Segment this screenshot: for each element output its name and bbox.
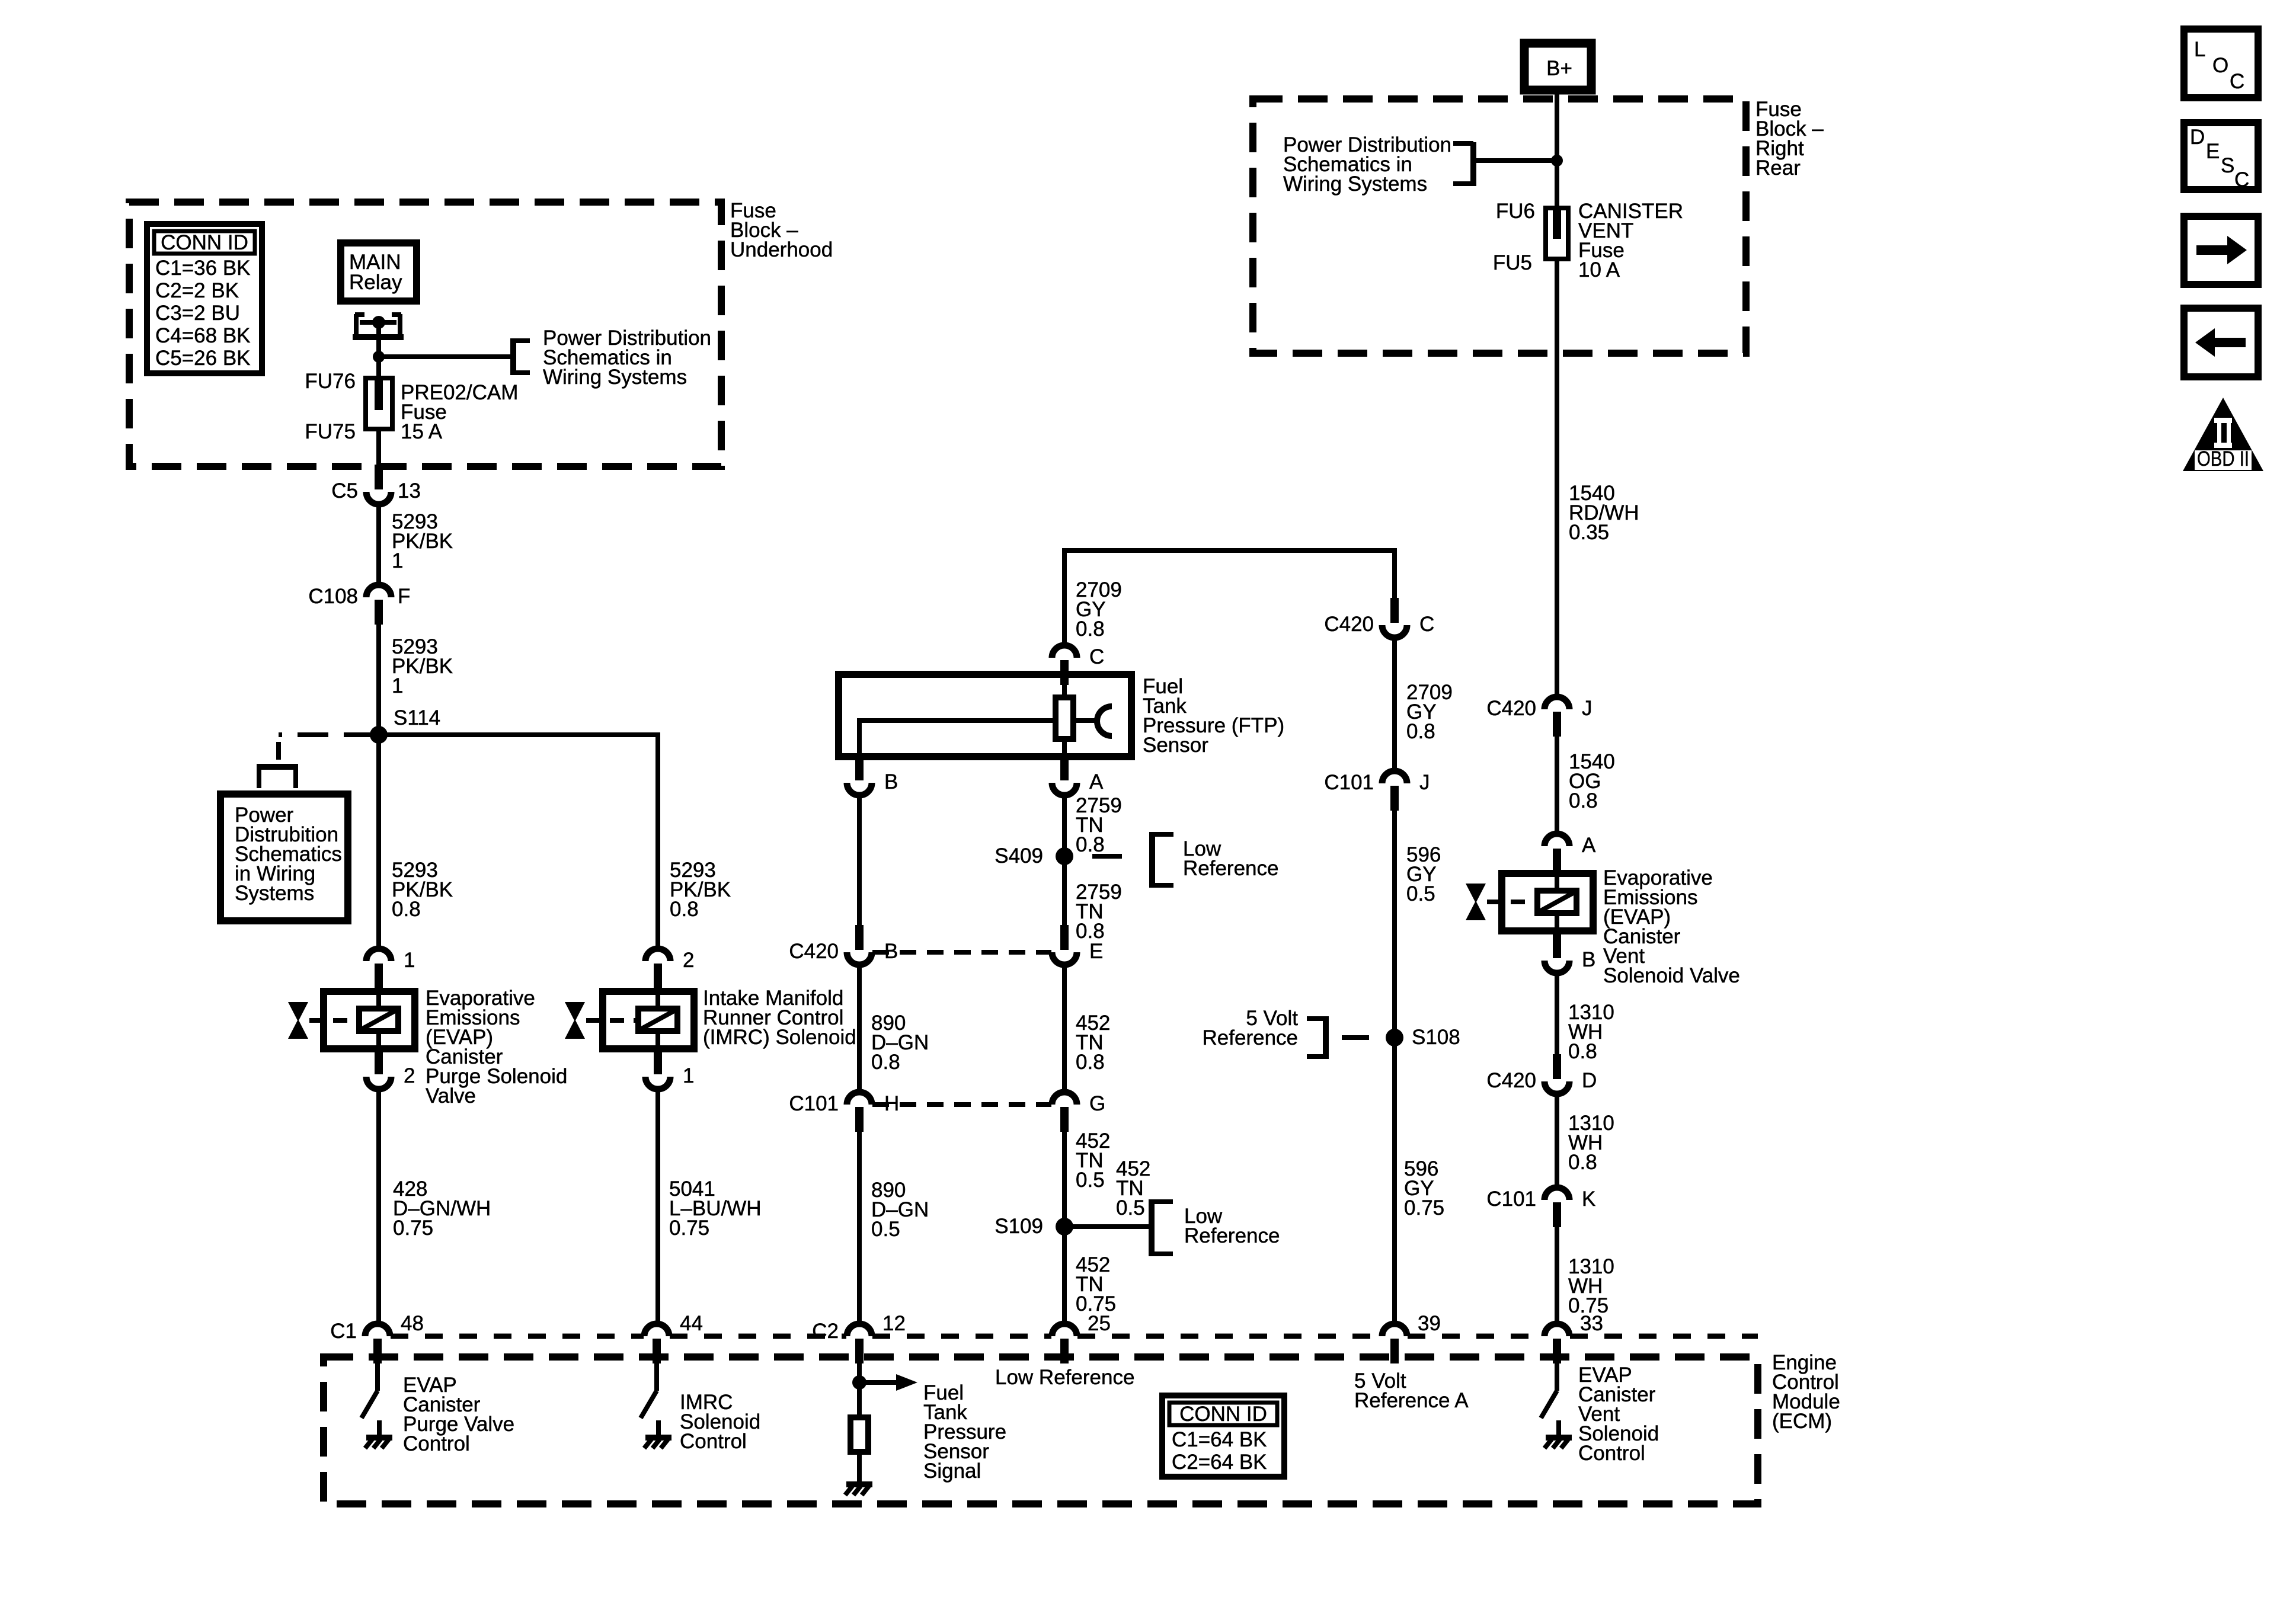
svg-text:0.8: 0.8 <box>871 1051 900 1074</box>
FU76 label <box>305 370 356 393</box>
svg-text:Sensor: Sensor <box>1143 734 1208 757</box>
svg-text:0.8: 0.8 <box>1076 1051 1105 1074</box>
page bracket (down) <box>257 767 298 788</box>
svg-text:0.75: 0.75 <box>669 1217 709 1240</box>
B+ terminal box <box>1524 43 1591 90</box>
OBD II icon <box>2183 398 2263 471</box>
svg-text:C2: C2 <box>812 1320 839 1343</box>
wire A to S409 <box>1062 795 1067 925</box>
connector pin 1 (IMRC) <box>645 1049 694 1089</box>
canister vent fuse label <box>1578 200 1683 281</box>
connector pin 44 <box>644 1312 703 1363</box>
svg-text:F: F <box>398 585 410 608</box>
connector pin E <box>1052 925 1103 965</box>
connector pin B (vent solenoid) <box>1544 933 1595 973</box>
svg-text:C1=64 BK: C1=64 BK <box>1172 1428 1267 1451</box>
wire C420J to vent A <box>1555 737 1559 834</box>
splice S114 <box>370 706 440 744</box>
svg-text:0.8: 0.8 <box>1568 1151 1597 1174</box>
svg-text:0.8: 0.8 <box>1568 1040 1597 1063</box>
wire purge to ECM pin 48 <box>376 1089 381 1324</box>
svg-text:Signal: Signal <box>923 1459 981 1483</box>
svg-text:2: 2 <box>683 949 694 972</box>
connector pin 39 <box>1382 1312 1441 1363</box>
svg-text:S: S <box>2221 154 2234 177</box>
FU6 label <box>1496 200 1535 223</box>
svg-text:C5: C5 <box>331 479 358 502</box>
svg-text:C420: C420 <box>1486 697 1536 720</box>
svg-text:Solenoid Valve: Solenoid Valve <box>1603 964 1740 987</box>
FTP sensing element <box>1056 697 1112 739</box>
svg-text:FU76: FU76 <box>305 370 356 393</box>
vent valve symbol <box>1466 884 1536 920</box>
svg-text:C: C <box>1089 645 1104 668</box>
svg-text:Reference: Reference <box>1203 1026 1298 1049</box>
splice S108 <box>1386 1026 1460 1049</box>
svg-text:0.8: 0.8 <box>1076 833 1105 856</box>
svg-text:Systems: Systems <box>235 882 314 905</box>
wire label 428 D-GN/WH 0.75 <box>393 1177 491 1240</box>
svg-text:S114: S114 <box>394 706 440 729</box>
wire label 2759 TN 0.8 (upper) <box>1076 794 1122 856</box>
svg-text:C: C <box>1419 613 1434 636</box>
wire label 452 TN 0.75 <box>1076 1253 1116 1315</box>
EVAP purge solenoid label <box>426 987 567 1108</box>
svg-text:13: 13 <box>398 479 421 502</box>
dashed off-page wire from S114 <box>279 735 375 767</box>
connector C101 pin H <box>789 1092 899 1132</box>
wire label 5293 PK/BK 0.8 (left) <box>392 859 453 921</box>
page reference bracket (underhood) <box>513 338 530 375</box>
svg-text:Control: Control <box>1578 1442 1645 1465</box>
CONN ID table (underhood) <box>147 224 262 373</box>
wire C5 to C108 <box>376 504 381 585</box>
splice S109 <box>994 1215 1073 1238</box>
FTP input resistor <box>850 1417 868 1472</box>
power distrubition note box <box>220 794 348 921</box>
svg-text:B+: B+ <box>1546 57 1572 80</box>
svg-text:C4=68 BK: C4=68 BK <box>155 324 251 347</box>
svg-text:FU5: FU5 <box>1493 251 1532 274</box>
wire C420D to C101K <box>1555 1093 1559 1188</box>
connector C5 pin 13 <box>331 465 421 504</box>
svg-text:C420: C420 <box>1324 613 1374 636</box>
connector C1 pin 48 <box>330 1312 424 1363</box>
connector C101 pin J <box>1324 771 1430 811</box>
svg-text:0.8: 0.8 <box>1076 617 1105 641</box>
svg-text:39: 39 <box>1418 1312 1441 1335</box>
svg-text:C108: C108 <box>308 585 358 608</box>
svg-text:Wiring Systems: Wiring Systems <box>1283 172 1427 196</box>
dashed off-page to S108 <box>1342 1035 1369 1040</box>
svg-text:Low Reference: Low Reference <box>995 1366 1134 1389</box>
svg-text:25: 25 <box>1088 1312 1111 1335</box>
svg-text:1: 1 <box>392 549 403 572</box>
wire label 2759 TN 0.8 (lower) <box>1076 881 1122 943</box>
svg-text:S409: S409 <box>994 844 1043 868</box>
wire label 890 D-GN 0.5 <box>871 1179 929 1241</box>
svg-text:CONN ID: CONN ID <box>161 231 248 254</box>
fuse PRE02/CAM FU76/FU75 <box>366 378 392 429</box>
svg-text:Reference A: Reference A <box>1354 1389 1469 1412</box>
IMRC solenoid coil <box>603 991 694 1049</box>
ECM connector dotted row <box>391 1334 1758 1339</box>
svg-text:E: E <box>1089 940 1103 963</box>
low reference label (ECM) <box>995 1366 1134 1389</box>
wire label 452 TN 0.8 <box>1076 1012 1110 1074</box>
wire B+ to fuse FU6 <box>1555 90 1559 210</box>
connector pin C (FTP) <box>1052 645 1104 685</box>
svg-text:CONN ID: CONN ID <box>1179 1403 1267 1426</box>
wire label 596 GY 0.75 <box>1404 1157 1444 1219</box>
wire fuse to C5 <box>376 429 381 465</box>
5 volt reference A label <box>1354 1369 1469 1412</box>
page bracket (low ref upper) <box>1152 832 1173 888</box>
wire label 5293 PK/BK 1 (lower) <box>392 635 453 697</box>
svg-text:A: A <box>1582 834 1596 857</box>
svg-text:D: D <box>2190 126 2205 149</box>
CONN ID table (ECM) <box>1162 1395 1284 1477</box>
fuse value label <box>401 381 518 443</box>
power distribution note (right rear) <box>1283 133 1451 196</box>
svg-text:C: C <box>2234 168 2249 191</box>
dashed connector row H-G <box>872 1102 1051 1107</box>
svg-text:Wiring Systems: Wiring Systems <box>543 366 687 389</box>
svg-text:0.5: 0.5 <box>1116 1196 1145 1219</box>
connector pin A (FTP) <box>1052 756 1104 795</box>
ECM driver switch pin 33 <box>1541 1363 1572 1448</box>
svg-text:S108: S108 <box>1412 1026 1460 1049</box>
connector C108 pin F <box>308 585 410 625</box>
junction (right rear) <box>1551 155 1563 167</box>
svg-text:C1=36 BK: C1=36 BK <box>155 257 251 280</box>
svg-text:1: 1 <box>683 1064 694 1087</box>
FTP input ground <box>845 1467 872 1495</box>
FTP sensor label <box>1143 675 1284 757</box>
FTP internal wiring <box>859 685 1064 757</box>
wire E to G <box>1062 964 1067 1093</box>
svg-text:K: K <box>1582 1188 1595 1211</box>
connector C101 pin K <box>1486 1188 1595 1227</box>
MAIN relay box <box>341 243 417 301</box>
svg-text:1: 1 <box>392 674 403 697</box>
low reference label (upper) <box>1183 837 1278 880</box>
IMRC valve symbol <box>565 1002 637 1039</box>
svg-text:E: E <box>2206 140 2220 163</box>
svg-text:10 A: 10 A <box>1578 258 1620 281</box>
connector C420 pin D <box>1486 1054 1597 1094</box>
svg-text:C420: C420 <box>789 940 839 963</box>
wire C101K to ECM pin 33 <box>1555 1227 1559 1324</box>
page reference bracket (right rear) <box>1453 142 1473 186</box>
wire label 890 D-GN 0.8 (upper) <box>871 1012 929 1074</box>
connector pin 1 (EVAP purge) <box>366 949 415 988</box>
wire label 1540 RD/WH 0.35 <box>1569 482 1639 544</box>
wire C420B to C101H <box>857 964 862 1093</box>
DESC icon <box>2184 123 2258 191</box>
svg-text:B: B <box>884 770 898 793</box>
svg-text:(IMRC) Solenoid: (IMRC) Solenoid <box>703 1026 856 1049</box>
svg-text:C101: C101 <box>1486 1188 1536 1211</box>
splice S409 <box>994 844 1073 868</box>
svg-text:Relay: Relay <box>349 271 402 294</box>
svg-text:33: 33 <box>1580 1312 1603 1335</box>
connector C420 pin J <box>1486 697 1592 737</box>
wire label 5293 PK/BK 1 (upper) <box>392 510 453 572</box>
LOC icon <box>2184 29 2258 98</box>
svg-text:L: L <box>2194 38 2205 61</box>
svg-text:0.75: 0.75 <box>393 1217 433 1240</box>
svg-text:Control: Control <box>403 1432 470 1455</box>
FTP sensor box <box>839 674 1131 757</box>
connector C2 pin 12 <box>812 1312 906 1363</box>
EVAP purge solenoid coil <box>324 991 415 1049</box>
svg-text:S109: S109 <box>994 1215 1043 1238</box>
svg-text:1: 1 <box>404 949 415 972</box>
svg-text:0.75: 0.75 <box>1404 1196 1444 1219</box>
svg-text:Reference: Reference <box>1183 857 1278 880</box>
svg-text:O: O <box>2212 54 2228 77</box>
ECM driver switch pin 44 <box>641 1363 671 1448</box>
wire label 5293 PK/BK 0.8 (right) <box>670 859 731 921</box>
svg-text:0.8: 0.8 <box>1406 720 1435 743</box>
svg-text:A: A <box>1089 770 1104 793</box>
wire label 2709 GY 0.8 (left) <box>1076 578 1122 641</box>
fuse block right rear label <box>1755 98 1824 180</box>
svg-text:J: J <box>1582 697 1593 720</box>
connector pin 2 (IMRC) <box>645 949 694 988</box>
EVAP vent solenoid coil <box>1502 873 1593 931</box>
svg-text:0.8: 0.8 <box>1569 789 1598 812</box>
svg-text:OBD II: OBD II <box>2197 447 2249 470</box>
IMRC solenoid label <box>703 987 856 1049</box>
EVAP canister vent solenoid control label <box>1578 1363 1659 1465</box>
wire C420C to C101J <box>1392 637 1397 772</box>
svg-text:0.8: 0.8 <box>392 898 421 921</box>
wire S114 branch to IMRC <box>379 735 658 949</box>
connector pin 25 <box>1052 1312 1111 1363</box>
FTP signal input pin 12 <box>852 1363 917 1417</box>
svg-text:C: C <box>2230 70 2244 93</box>
connector pin 2 (EVAP purge) <box>366 1049 415 1089</box>
wire label 1310 WH 0.8 (lower) <box>1568 1112 1614 1174</box>
fuse CANISTER VENT FU6/FU5 <box>1546 208 1568 259</box>
svg-text:0.35: 0.35 <box>1569 521 1609 544</box>
svg-text:48: 48 <box>401 1312 424 1335</box>
purge valve symbol <box>288 1002 358 1039</box>
FU5 label <box>1493 251 1532 274</box>
connector pin 33 <box>1544 1312 1603 1363</box>
low reference label (lower) <box>1184 1205 1280 1247</box>
fuse block underhood dashed box <box>129 202 721 466</box>
connector C420 pin B <box>789 925 898 965</box>
svg-text:FU6: FU6 <box>1496 200 1535 223</box>
wire label 1310 WH 0.8 (upper) <box>1568 1001 1614 1063</box>
svg-text:J: J <box>1419 771 1430 794</box>
svg-text:C420: C420 <box>1486 1069 1536 1092</box>
dashed off-page S409 <box>1092 854 1122 859</box>
wire junction to page bracket (right rear) <box>1473 158 1557 163</box>
EVAP canister purge valve control label <box>403 1374 514 1455</box>
svg-text:C5=26 BK: C5=26 BK <box>155 347 251 370</box>
svg-text:12: 12 <box>882 1312 906 1335</box>
svg-text:0.8: 0.8 <box>670 898 699 921</box>
wire relay to fuse FU76 <box>376 322 381 380</box>
svg-text:C101: C101 <box>1324 771 1374 794</box>
wire B to C420-B <box>857 795 862 925</box>
wire label 1540 OG 0.8 <box>1569 750 1615 812</box>
fuel tank pressure sensor signal label <box>923 1381 1006 1483</box>
connector pin A (vent solenoid) <box>1544 834 1596 873</box>
wire fuse to C420 J <box>1555 259 1559 697</box>
fuse block right rear dashed box <box>1253 99 1746 353</box>
svg-text:C1: C1 <box>330 1320 357 1343</box>
power distribution note (underhood) <box>543 327 711 389</box>
svg-text:C2=2 BK: C2=2 BK <box>155 279 239 302</box>
IMRC solenoid control label <box>680 1391 760 1453</box>
svg-text:Underhood: Underhood <box>730 238 833 261</box>
connector pin B (FTP) <box>847 756 898 795</box>
FTP feed wire top <box>1064 548 1395 646</box>
back arrow icon <box>2184 308 2258 377</box>
wire IMRC to ECM pin 44 <box>655 1089 660 1324</box>
svg-text:Valve: Valve <box>426 1084 476 1108</box>
ECM driver switch pin 48 <box>362 1363 392 1448</box>
FU75 label <box>305 420 356 443</box>
wire label 452 TN 0.5 <box>1076 1129 1110 1192</box>
svg-text:15 A: 15 A <box>401 420 443 443</box>
page bracket (low ref lower) <box>1152 1199 1173 1256</box>
svg-text:FU75: FU75 <box>305 420 356 443</box>
wire C101J to ECM pin 39 <box>1392 811 1397 1324</box>
svg-text:Reference: Reference <box>1184 1224 1280 1247</box>
wire label 5041 L-BU/WH 0.75 <box>669 1177 762 1240</box>
junction <box>373 351 385 363</box>
svg-text:0.5: 0.5 <box>871 1218 900 1241</box>
wire label 596 GY 0.5 <box>1406 843 1441 905</box>
dashed connector row B-E <box>872 950 1051 955</box>
wire label 2709 GY 0.8 (right) <box>1406 681 1453 743</box>
wire S109 to ECM pin 25 <box>1062 1227 1067 1324</box>
svg-text:C101: C101 <box>789 1092 839 1115</box>
wire S114 down to purge solenoid <box>376 735 381 949</box>
connector C420 pin C <box>1324 598 1434 638</box>
wire H to ECM pin 12 <box>857 1132 862 1324</box>
svg-text:D: D <box>1582 1069 1597 1092</box>
fuse block underhood label <box>730 199 833 261</box>
svg-text:2: 2 <box>404 1064 415 1087</box>
svg-text:0.5: 0.5 <box>1406 882 1435 905</box>
forward arrow icon <box>2184 216 2258 284</box>
5 volt reference label <box>1203 1007 1299 1049</box>
page bracket (5 volt ref) <box>1307 1016 1326 1059</box>
svg-text:Rear: Rear <box>1755 156 1801 180</box>
svg-text:C3=2 BU: C3=2 BU <box>155 302 240 325</box>
wire C108 to S114 <box>376 625 381 735</box>
svg-text:B: B <box>1582 948 1595 971</box>
ECM dashed box <box>324 1357 1758 1504</box>
connector pin G <box>1052 1092 1105 1132</box>
svg-text:G: G <box>1089 1092 1105 1115</box>
svg-text:(ECM): (ECM) <box>1772 1410 1832 1433</box>
wire S109 to low ref bracket <box>1064 1224 1150 1229</box>
wire vent B to C420 D <box>1555 972 1559 1054</box>
svg-text:Control: Control <box>680 1430 747 1453</box>
wire label 452 TN 0.5 (branch) <box>1116 1157 1150 1219</box>
wire junction to page bracket <box>379 354 513 359</box>
svg-text:0.5: 0.5 <box>1076 1169 1105 1192</box>
svg-text:C2=64 BK: C2=64 BK <box>1172 1451 1267 1474</box>
wire label 1310 WH 0.75 <box>1568 1255 1614 1317</box>
svg-text:44: 44 <box>680 1312 703 1335</box>
EVAP vent solenoid label <box>1603 866 1740 987</box>
wire G to S109 <box>1062 1132 1067 1227</box>
MAIN relay contact symbol <box>353 314 404 337</box>
ECM label <box>1772 1351 1840 1433</box>
